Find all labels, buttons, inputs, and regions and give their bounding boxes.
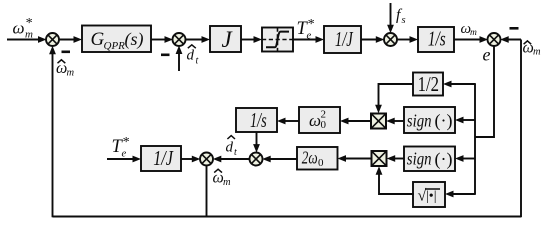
wire: S2 to block J (185, 36, 210, 43)
block sqrt(|.|) (413, 182, 445, 207)
svg-text:0: 0 (318, 157, 324, 169)
saturation block (limiter) (262, 28, 293, 52)
disturbance input d_t hat stub arrow into S2 (176, 46, 183, 72)
svg-text:(·): (·) (435, 149, 453, 170)
right riser wire up to S4 (520, 40, 522, 218)
wire: sign2 to M2 (387, 155, 404, 162)
wire: T_e* input to 1/J observer block (107, 156, 141, 163)
wire: saturation to 1/J block (293, 36, 324, 43)
wire: omega_m* input to summing junction S1 (7, 36, 47, 43)
summing junction S4 (error e) (488, 33, 501, 46)
svg-text:m: m (223, 177, 231, 188)
svg-text:d: d (226, 140, 234, 156)
multiplier M1 (371, 114, 386, 129)
wire: 1/2 to multiplier M1 (375, 84, 413, 113)
label d_t hat (observer output) (226, 136, 238, 158)
label omega_m hat (observer output, below SA) (213, 169, 232, 188)
input f_s stub arrow into S3 (387, 3, 394, 33)
svg-text:(·): (·) (435, 111, 453, 132)
block sign1 (404, 107, 455, 133)
wire: feed line to sign2 block (455, 155, 475, 162)
wire: M2 to 2omega_0 (338, 155, 372, 162)
svg-text:ω: ω (309, 111, 321, 130)
minus sign at S1 (62, 51, 71, 54)
svg-text:|•|: |•| (426, 189, 437, 204)
block omega_0^2 (299, 107, 340, 133)
summing junction SB (250, 153, 263, 166)
wire: 1/J to summing junction S3 (361, 36, 384, 43)
svg-text:sign: sign (407, 111, 432, 131)
svg-text:e: e (122, 149, 127, 160)
wire: feed line to 1/2 block (443, 81, 476, 88)
svg-text:m: m (533, 47, 541, 58)
svg-text:t: t (234, 147, 237, 158)
block 1/s (observer integrator) (236, 108, 277, 132)
block 2omega_0 (297, 147, 338, 170)
block J (210, 26, 241, 52)
feed line vertical (distributes e) (474, 84, 476, 194)
label f_s (396, 7, 406, 27)
wire: omega_0^2 to 1/s bottom block (277, 118, 299, 125)
wire: feed line to sqrt block (445, 191, 476, 198)
svg-text:1/J: 1/J (153, 146, 174, 170)
svg-text:1/2: 1/2 (418, 72, 439, 96)
block 1/2 (413, 72, 443, 96)
wire: SA output down to bottom bus (206, 165, 208, 216)
svg-text:t: t (196, 56, 199, 67)
label T_e* (top) (297, 17, 315, 42)
wire: error e down from S4 and over to feed line (475, 46, 494, 137)
left riser wire up to S1 (49, 46, 56, 218)
svg-text:sign: sign (407, 149, 432, 169)
wire: 1/s down to summing junction SB (253, 132, 260, 153)
svg-text:m: m (67, 68, 75, 79)
label omega_m* (reference speed input) (13, 16, 34, 41)
summing junction S3 (384, 33, 397, 46)
label omega_m (speed output) (461, 21, 478, 38)
svg-text:1/s: 1/s (250, 108, 267, 132)
wire: G_QPR to summing junction S2 (151, 36, 173, 43)
multiplier M2 (372, 151, 387, 166)
svg-text:2: 2 (321, 109, 327, 121)
svg-text:d: d (187, 48, 195, 64)
minus sign at S2 (161, 54, 170, 57)
wire: feed line to sign1 block (455, 117, 475, 124)
summing junction SA (200, 153, 213, 166)
svg-text:G: G (91, 29, 105, 50)
svg-text:2ω: 2ω (302, 148, 318, 168)
svg-text:0: 0 (321, 119, 327, 131)
summing junction S2 (173, 33, 186, 46)
wire: sqrt to M2 (up into bottom of M2) (376, 166, 414, 194)
block sign2 (404, 147, 455, 172)
bottom bus wire (53, 216, 522, 218)
label d_t hat (top) (187, 45, 199, 67)
svg-text:J: J (222, 27, 234, 52)
block 1/J (plant) (324, 26, 361, 53)
svg-text:ω: ω (13, 19, 25, 38)
wire: S1 to G_QPR block (59, 36, 82, 43)
svg-text:e: e (483, 45, 491, 65)
wire: J to saturation block (241, 36, 262, 43)
wire: SB to SA (213, 156, 250, 163)
minus sign at S4 (510, 27, 519, 30)
wire: 1/s to summing junction S4 (454, 36, 488, 43)
svg-text:1/J: 1/J (335, 27, 354, 51)
wire: sign1 to M1 (386, 118, 404, 125)
block G_QPR(s) (82, 26, 151, 53)
svg-text:m: m (470, 28, 477, 38)
wire: 1/J observer to SA (181, 156, 200, 163)
label omega_m hat (left feedback) (56, 60, 75, 79)
summing junction S1 (46, 33, 59, 46)
block 1/J (observer) (141, 146, 181, 171)
svg-text:s: s (402, 15, 406, 26)
feedback wire omega_m hat into S4 (from right riser) (500, 36, 521, 43)
wire: M1 to omega_0^2 block (340, 118, 371, 125)
block 1/s (integrator, plant) (418, 27, 454, 53)
label T_e* (observer input) (112, 135, 130, 160)
svg-text:1/s: 1/s (428, 27, 446, 51)
label omega_m hat (right feedback) (523, 40, 542, 58)
svg-text:(s): (s) (125, 29, 144, 50)
svg-text:QPR: QPR (104, 40, 126, 52)
wire: 2omega_0 to SB (262, 156, 297, 163)
wire: S3 to 1/s block (397, 36, 418, 43)
